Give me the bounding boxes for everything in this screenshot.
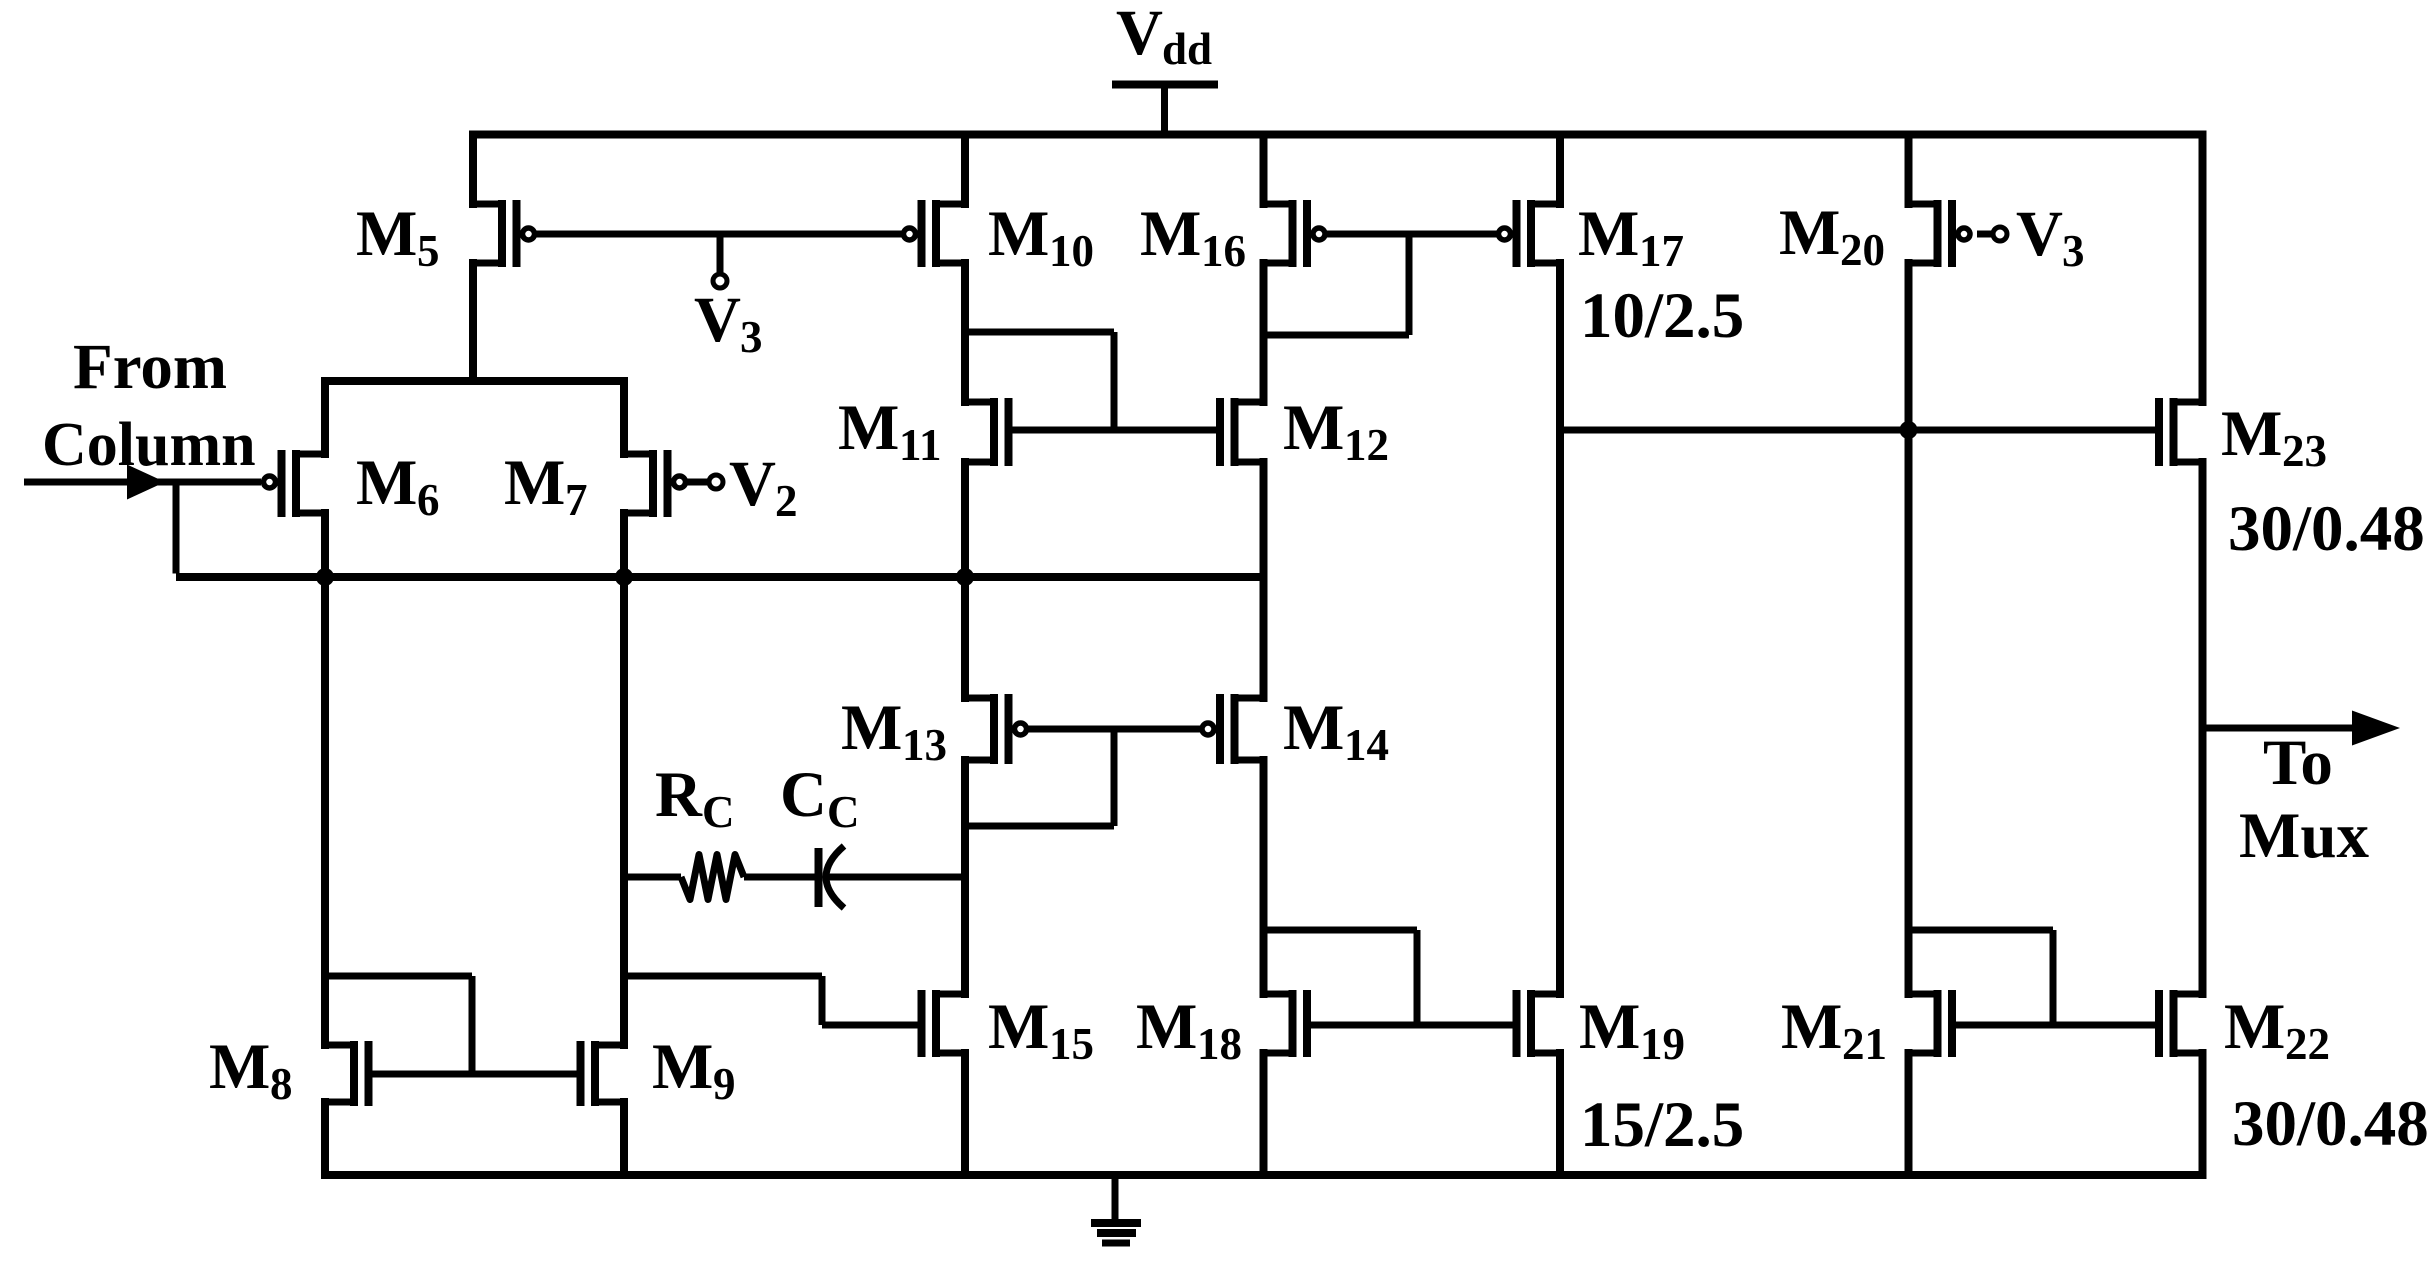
label M14 <box>1283 692 1389 770</box>
svg-text:V: V <box>2016 198 2063 270</box>
transistor M13 <box>965 694 1027 764</box>
svg-text:M: M <box>1781 991 1842 1063</box>
capacitor CC <box>819 846 845 908</box>
V3 label (left) <box>694 284 763 362</box>
svg-text:M: M <box>838 392 899 464</box>
wire M17/M19 column <box>1556 131 1564 1179</box>
wire M7/M9 column <box>620 377 628 1179</box>
transistor M12 <box>1220 398 1264 466</box>
svg-text:3: 3 <box>2062 226 2085 276</box>
svg-text:C: C <box>780 759 827 831</box>
transistor M14 <box>1202 694 1264 764</box>
label M23 <box>2221 398 2327 476</box>
input wire From Column <box>24 479 261 486</box>
M21 diode connection loop <box>1909 930 2054 1025</box>
transistor M7 <box>624 450 686 517</box>
transistor M20 <box>1909 200 1971 267</box>
label M10 <box>988 198 1094 276</box>
wire M20/M21 column <box>1905 131 1913 1179</box>
svg-text:30/0.48: 30/0.48 <box>2232 1088 2429 1160</box>
label M9 <box>652 1031 736 1109</box>
svg-text:5: 5 <box>417 226 440 276</box>
M18 diode connection loop <box>1264 930 1418 1025</box>
gate wire M5-M10 <box>536 231 902 238</box>
wire M16/M12/M14/M18 column <box>1260 131 1268 1179</box>
svg-text:7: 7 <box>565 475 588 525</box>
svg-text:To: To <box>2263 727 2333 799</box>
junction dot at M11 column <box>956 568 974 586</box>
svg-text:dd: dd <box>1162 24 1212 74</box>
second stage node wire M17 to M23 gate <box>1560 427 2159 434</box>
transistor M9 <box>581 1041 625 1106</box>
svg-text:M: M <box>1283 392 1344 464</box>
wire M10/M11/M13/M15 column <box>961 131 969 1179</box>
label M6 <box>356 447 440 525</box>
label M13 <box>841 692 947 770</box>
svg-text:13: 13 <box>902 720 947 770</box>
svg-text:19: 19 <box>1640 1019 1685 1069</box>
svg-text:C: C <box>827 787 860 837</box>
gate wire M8-M9 <box>369 1071 581 1078</box>
svg-text:V: V <box>729 448 776 520</box>
V3 terminal (right, M20 gate) <box>1977 227 2007 241</box>
top Vdd rail <box>469 131 2207 139</box>
wire CC to M13 column <box>826 874 965 881</box>
svg-text:M: M <box>504 447 565 519</box>
svg-text:11: 11 <box>899 420 942 470</box>
svg-text:M: M <box>2221 398 2282 470</box>
transistor M21 <box>1909 990 1953 1057</box>
output wire To Mux <box>2203 725 2357 732</box>
svg-text:M: M <box>841 692 902 764</box>
gate wire M16-M17 <box>1327 231 1497 238</box>
svg-text:20: 20 <box>1840 225 1885 275</box>
wire M5 source to diff pair top plate <box>469 259 477 385</box>
transistor M22 <box>2159 990 2203 1057</box>
ground symbol <box>1091 1175 1141 1243</box>
M13 diode connection loop <box>965 729 1114 826</box>
svg-text:21: 21 <box>1842 1019 1887 1069</box>
svg-text:V: V <box>694 284 741 356</box>
output arrowhead <box>2352 711 2400 746</box>
label M12 <box>1283 392 1389 470</box>
svg-text:17: 17 <box>1639 226 1684 276</box>
svg-text:M: M <box>1136 991 1197 1063</box>
svg-text:Mux: Mux <box>2239 800 2370 872</box>
label M22 <box>2224 991 2330 1069</box>
svg-text:M: M <box>988 198 1049 270</box>
svg-text:16: 16 <box>1201 226 1246 276</box>
svg-text:22: 22 <box>2285 1019 2330 1069</box>
label RC <box>655 759 735 837</box>
svg-text:15: 15 <box>1049 1019 1094 1069</box>
transistor M17 <box>1499 200 1561 267</box>
transistor M23 <box>2159 398 2203 466</box>
V2 terminal <box>687 475 723 489</box>
svg-text:M: M <box>356 447 417 519</box>
label M16 <box>1140 198 1246 276</box>
svg-text:15/2.5: 15/2.5 <box>1580 1089 1744 1161</box>
svg-text:6: 6 <box>417 475 440 525</box>
M16 diode connection loop <box>1264 234 1410 335</box>
compensation branch wire (left) <box>624 874 681 881</box>
svg-text:C: C <box>702 787 735 837</box>
svg-text:8: 8 <box>270 1059 293 1109</box>
wire M5 drain from rail <box>469 135 477 209</box>
wire RC to CC <box>744 874 815 881</box>
wire mid node to M15 gate <box>624 976 922 1025</box>
value label M17 10/2.5 <box>1580 280 1744 352</box>
resistor RC <box>681 855 744 900</box>
transistor M6 <box>264 450 326 517</box>
mid horizontal node wire <box>176 573 1264 581</box>
svg-text:M: M <box>652 1031 713 1103</box>
label M21 <box>1781 991 1887 1069</box>
svg-text:M: M <box>1578 198 1639 270</box>
svg-text:9: 9 <box>713 1059 736 1109</box>
transistor M11 <box>965 398 1009 466</box>
svg-text:2: 2 <box>775 476 798 526</box>
svg-text:M: M <box>1579 991 1640 1063</box>
junction dot at M20 column <box>1900 421 1918 439</box>
wire M6/M8 column <box>321 377 329 1179</box>
junction dot at M6 column <box>316 568 334 586</box>
wire M23/M22 output column <box>2199 131 2207 1179</box>
transistor M5 <box>473 200 535 267</box>
label M17 <box>1578 198 1684 276</box>
label M11 <box>838 392 942 470</box>
M11 diode connection loop <box>965 332 1114 430</box>
svg-text:M: M <box>988 991 1049 1063</box>
svg-text:18: 18 <box>1197 1019 1242 1069</box>
transistor M16 <box>1264 200 1326 267</box>
svg-text:From: From <box>73 331 227 403</box>
svg-text:V: V <box>1116 0 1163 69</box>
label M8 <box>209 1031 293 1109</box>
svg-text:14: 14 <box>1344 720 1389 770</box>
svg-text:23: 23 <box>2282 426 2327 476</box>
gate wire M13-M14 <box>1028 726 1200 733</box>
Vdd label <box>1116 0 1212 74</box>
svg-text:10: 10 <box>1049 226 1094 276</box>
label M15 <box>988 991 1094 1069</box>
gate wire M11-M12 <box>1009 427 1221 434</box>
label M18 <box>1136 991 1242 1069</box>
svg-text:M: M <box>1283 692 1344 764</box>
transistor M19 <box>1517 990 1561 1057</box>
svg-text:12: 12 <box>1344 420 1389 470</box>
gate wire M18-M19 <box>1307 1022 1517 1029</box>
svg-text:30/0.48: 30/0.48 <box>2228 493 2425 565</box>
To Mux label <box>2239 727 2370 872</box>
Vdd power symbol <box>1112 85 1218 139</box>
transistor M8 <box>325 1041 369 1106</box>
V2 label <box>729 448 798 526</box>
input arrowhead <box>127 465 165 500</box>
label M20 <box>1779 197 1885 275</box>
svg-text:M: M <box>209 1031 270 1103</box>
value label M22 30/0.48 <box>2232 1088 2429 1160</box>
value label M23 30/0.48 <box>2228 493 2425 565</box>
bottom ground rail <box>321 1171 2207 1179</box>
svg-text:M: M <box>2224 991 2285 1063</box>
V3 terminal (left) <box>713 234 727 288</box>
transistor M10 <box>904 200 966 267</box>
V3 label (right) <box>2016 198 2085 276</box>
label CC <box>780 759 860 837</box>
wire input tap down to mid node <box>173 482 180 574</box>
svg-text:M: M <box>356 198 417 270</box>
diff pair top plate wire <box>321 377 628 385</box>
transistor M15 <box>922 990 966 1057</box>
label M5 <box>356 198 440 276</box>
M8 diode connection loop <box>325 976 472 1074</box>
value label M19 15/2.5 <box>1580 1089 1744 1161</box>
svg-text:3: 3 <box>740 312 763 362</box>
junction dot at M7 column <box>615 568 633 586</box>
svg-text:10/2.5: 10/2.5 <box>1580 280 1744 352</box>
transistor M18 <box>1264 990 1308 1057</box>
label M19 <box>1579 991 1685 1069</box>
gate wire M21-M22 <box>1952 1022 2159 1029</box>
label M7 <box>504 447 588 525</box>
svg-text:R: R <box>655 759 703 831</box>
From Column label <box>42 331 256 479</box>
svg-text:M: M <box>1779 197 1840 269</box>
svg-text:M: M <box>1140 198 1201 270</box>
svg-text:Column: Column <box>42 411 256 479</box>
